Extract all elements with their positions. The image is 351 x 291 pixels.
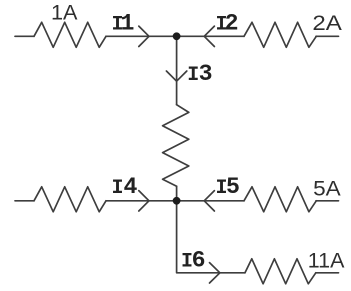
wire top-right lead [316,35,339,37]
svg-text:I2: I2 [216,11,239,37]
arrow I2 [204,26,214,46]
wire node B to bottom-right resistor [177,200,244,202]
svg-text:I4: I4 [112,174,138,200]
resistor bottom-left [34,187,106,212]
svg-text:I3: I3 [187,61,212,87]
resistor top-right 2A [244,22,316,47]
svg-text:2A: 2A [312,11,342,35]
resistor I6 branch 11A [245,259,316,284]
svg-text:I6: I6 [181,248,206,274]
svg-text:11A: 11A [308,249,345,273]
svg-text:1A: 1A [51,0,78,24]
wire top-left lead [15,35,34,37]
wire vertical resistor to node B [176,186,178,201]
arrow I5 [204,191,214,211]
arrow I1 [139,26,149,46]
node A junction dot [173,32,181,40]
svg-text:5A: 5A [313,177,341,201]
wire bottom-right lead [316,200,339,202]
resistor middle vertical [163,105,189,187]
wire node B down and right (I6 branch) [177,201,245,273]
arrow I3 [166,71,186,81]
resistor bottom-right 5A [244,187,316,212]
wire I6 lead right [316,272,339,274]
arrow I4 [139,191,149,211]
node B junction dot [173,197,181,205]
resistor top-left (1A source branch) [34,22,106,47]
wire bottom-left lead [15,200,34,202]
svg-text:I5: I5 [216,174,240,200]
arrow I6 [210,263,220,283]
wire node A down [176,36,178,104]
wire bottom-left to node B [106,200,177,202]
wire top-left to node A [106,35,177,37]
svg-text:I1: I1 [112,11,135,37]
wire node A to top-right resistor [177,35,244,37]
